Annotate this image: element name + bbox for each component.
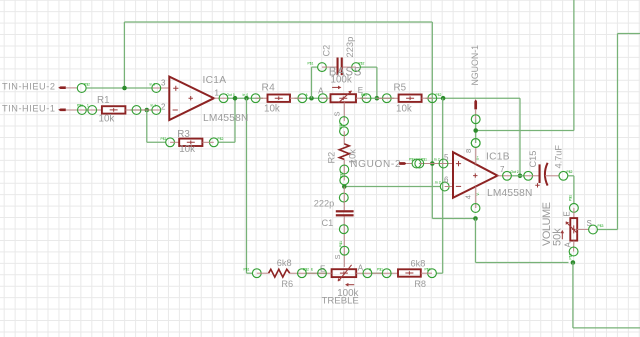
pin circles R1 left	[77, 104, 97, 115]
svg-text:V-: V-	[476, 192, 480, 195]
pin circles TREBLE A / R8 left	[356, 268, 398, 278]
svg-text:222p: 222p	[314, 199, 334, 209]
svg-text:10k: 10k	[396, 103, 412, 114]
svg-text:IC1B: IC1B	[486, 152, 510, 163]
wire NGUON-2 to IC1B pin5	[419, 163, 422, 165]
pin number 6	[444, 176, 449, 185]
pin circles IC1B pin5	[415, 158, 453, 168]
pin circle VOLUME bottom	[569, 241, 578, 260]
label TIN-HIEU-2	[2, 82, 55, 92]
wire treble row segments	[306, 272, 382, 274]
svg-text:223p: 223p	[344, 37, 355, 58]
svg-text:S: S	[333, 111, 342, 116]
label R2	[327, 152, 337, 164]
pin circle R3 left	[161, 137, 180, 147]
svg-text:V+: V+	[476, 156, 480, 160]
value R4 10k	[264, 103, 280, 114]
svg-text:10k: 10k	[99, 114, 115, 125]
svg-text:2: 2	[161, 102, 166, 111]
svg-text:100k: 100k	[331, 74, 352, 85]
svg-text:5: 5	[444, 153, 449, 162]
net flag NGUON-1	[474, 99, 477, 119]
svg-text:P$2: P$2	[340, 172, 344, 178]
svg-text:P$2: P$2	[436, 93, 442, 97]
potentiometer VOLUME	[561, 218, 589, 241]
wire C2 right leg	[360, 67, 377, 98]
pin circles R1 right / IC1A pin2	[125, 104, 160, 115]
pin circle R4 left	[251, 94, 267, 103]
svg-text:P$2: P$2	[303, 268, 309, 272]
wire R1 to IC1A pin2	[130, 109, 152, 111]
svg-text:6k8: 6k8	[411, 259, 426, 269]
svg-text:NGUON-2: NGUON-2	[350, 159, 401, 170]
resistor R4	[268, 95, 291, 102]
svg-text:P$1: P$1	[339, 241, 343, 247]
pin number 4	[464, 195, 473, 199]
label BASS	[329, 66, 362, 78]
wire pin4 row	[432, 218, 475, 220]
value R1 10k	[99, 114, 115, 125]
label R5	[394, 83, 407, 94]
pin IC1B power 8	[471, 139, 480, 165]
wire R3 right to output	[218, 98, 235, 142]
svg-text:1: 1	[87, 104, 89, 108]
svg-text:C2: C2	[322, 45, 332, 57]
value C1 222p	[314, 199, 334, 209]
capacitor C15	[535, 163, 559, 188]
label IC1B	[486, 152, 510, 163]
wire feedback down to R3	[147, 110, 166, 142]
pin circles NGUON-1	[471, 115, 480, 148]
wire BASS S to R2	[343, 131, 345, 144]
pin circle VOLUME top	[569, 195, 579, 218]
pin circle C15 left	[524, 171, 539, 180]
svg-text:10k: 10k	[179, 144, 195, 155]
label R4	[262, 83, 276, 94]
svg-text:In 2: In 2	[434, 158, 440, 162]
svg-text:R6: R6	[281, 279, 293, 289]
value R5 10k	[396, 103, 412, 114]
pin number 2	[161, 102, 166, 111]
wire BASS to R5	[360, 97, 394, 99]
pin circles C1 bottom	[339, 216, 349, 267]
pin circles R6 right / TREBLE E	[290, 268, 332, 278]
svg-text:In 0: In 0	[243, 93, 249, 97]
net flag TIN-HIEU-2	[58, 86, 77, 89]
pin circle R5 left	[377, 94, 399, 103]
svg-text:P$1: P$1	[361, 93, 367, 97]
label LM4558N IC1A	[203, 113, 249, 124]
node IC1A output junction A	[233, 96, 238, 101]
pin number 7	[500, 165, 505, 174]
svg-text:A: A	[306, 93, 309, 97]
pin number 8	[464, 149, 473, 153]
pin circle C15 right	[559, 170, 573, 180]
wiper pin BASS S	[333, 102, 345, 121]
wire C15 to VOLUME top	[568, 176, 574, 204]
value C15 4.7uF	[554, 145, 564, 169]
svg-text:P$2: P$2	[567, 170, 573, 174]
svg-text:Out 0: Out 0	[227, 93, 235, 97]
svg-text:TREBLE: TREBLE	[322, 296, 359, 307]
resistor R3	[179, 139, 202, 146]
svg-text:P$2: P$2	[359, 61, 365, 65]
capacitor C1	[336, 210, 354, 216]
pin number 1	[215, 89, 220, 98]
svg-text:P$3: P$3	[598, 224, 604, 228]
svg-text:TIN-HIEU-1: TIN-HIEU-1	[2, 104, 55, 114]
value C2 223p	[344, 37, 355, 58]
svg-text:10k: 10k	[264, 103, 280, 114]
pin circle R4 right	[290, 93, 309, 103]
svg-text:LM4558N: LM4558N	[487, 188, 533, 199]
wiper pin TREBLE S	[333, 254, 342, 259]
wire R8 feedback column	[436, 98, 442, 273]
resistor R2	[339, 144, 349, 160]
label LM4558N IC1B	[487, 188, 533, 199]
svg-text:A: A	[318, 86, 324, 95]
node BASS/C2-right junction	[375, 96, 380, 101]
node IC1A output junction B	[244, 96, 249, 101]
svg-text:4.7uF: 4.7uF	[554, 145, 564, 169]
svg-text:Out 2: Out 2	[511, 170, 519, 174]
svg-text:P$1: P$1	[421, 158, 427, 162]
svg-text:LM4558N: LM4558N	[203, 113, 249, 124]
label 6k8 R8	[411, 259, 426, 269]
pin number 3	[161, 78, 166, 87]
value TREBLE 100k	[337, 288, 358, 299]
label VOLUME	[541, 202, 553, 246]
svg-text:TIN-HIEU-2: TIN-HIEU-2	[2, 82, 55, 92]
wire VOLUME wiper to right edge	[597, 34, 640, 230]
wire NGUON-1 supply net	[476, 0, 574, 131]
value R2 10k	[348, 149, 358, 164]
svg-text:C15: C15	[528, 151, 538, 168]
wire pin4 to volume bottom	[476, 219, 569, 263]
resistor R5	[399, 95, 422, 102]
svg-text:S: S	[333, 254, 342, 259]
svg-text:A: A	[358, 263, 364, 272]
pin circle R6 wire end	[244, 268, 269, 278]
net flag TIN-HIEU-1	[58, 108, 102, 111]
node IC1B output junction	[518, 174, 523, 179]
label NGUON-1	[470, 45, 480, 86]
label TREBLE terminal A	[358, 263, 364, 272]
pin circle IC1B pin6	[435, 181, 453, 191]
svg-text:IC1A: IC1A	[203, 75, 227, 86]
svg-text:P$1: P$1	[161, 137, 167, 141]
wire R2 to IC1B pin6	[344, 186, 440, 188]
pin circle R8 right	[421, 268, 437, 278]
pin circle C2 left	[308, 61, 337, 71]
label C2	[322, 45, 332, 57]
wire IC1A output	[228, 97, 263, 99]
svg-text:50k: 50k	[552, 228, 564, 246]
node feedback/IC1B pin5 junction	[430, 161, 435, 166]
pin circle R5 right	[422, 93, 442, 103]
node R1/R3 junction	[145, 108, 150, 113]
resistor R6	[269, 269, 290, 277]
svg-text:R8: R8	[414, 279, 426, 289]
pin circles R2 bottom	[340, 159, 349, 184]
node TIN-HIEU-2 junction	[122, 86, 127, 91]
label VOLUME terminal A	[564, 242, 573, 248]
pin circle C2 right	[343, 61, 365, 71]
potentiometer TREBLE	[332, 265, 357, 287]
svg-text:In 2: In 2	[435, 181, 441, 185]
wire IC1B output to C15	[511, 175, 524, 177]
label TREBLE	[322, 296, 359, 307]
svg-text:R1: R1	[97, 95, 110, 106]
capacitor C2	[337, 58, 343, 76]
svg-text:P$1: P$1	[77, 104, 83, 108]
wire C2 left leg	[312, 67, 318, 98]
resistor R8	[398, 269, 421, 276]
pin circle R3 right	[202, 137, 223, 147]
pin circle TIN-HIEU-2 wire end	[77, 83, 90, 93]
svg-text:P$3: P$3	[339, 123, 343, 129]
pin circle BASS A	[318, 94, 330, 103]
pin circle BASS E	[356, 93, 371, 103]
pin circle C1 top	[339, 187, 348, 211]
svg-text:P$1: P$1	[244, 268, 250, 272]
svg-text:A: A	[564, 242, 573, 248]
label VOLUME terminal E	[563, 211, 572, 216]
svg-text:P$1: P$1	[377, 268, 383, 272]
svg-text:8: 8	[464, 149, 473, 153]
net flag NGUON-2	[399, 162, 412, 165]
pin circle IC1A pin3	[150, 82, 170, 92]
pin IC1B power 4	[471, 186, 480, 212]
node volume bottom junction	[571, 260, 576, 265]
label 6k8 R6	[277, 258, 292, 268]
svg-text:P$2: P$2	[425, 268, 431, 272]
wire R4 to BASS	[294, 97, 327, 99]
svg-text:P$2: P$2	[218, 137, 224, 141]
label IC1A	[203, 75, 227, 86]
label R6	[281, 279, 293, 289]
pin number 5	[444, 153, 449, 162]
svg-text:In 1: In 1	[151, 104, 157, 108]
svg-text:6: 6	[444, 176, 449, 185]
node R5/R8 junction	[441, 96, 446, 101]
label TIN-HIEU-1	[2, 104, 55, 114]
resistor R1	[102, 106, 126, 113]
svg-text:E: E	[563, 211, 572, 216]
wire R5 to feedback column	[426, 97, 521, 99]
op-amp IC1A	[169, 77, 214, 120]
wire ground to right edge	[573, 263, 640, 328]
pin circle VOLUME S	[589, 224, 604, 234]
node IC1B pin4 junction	[473, 216, 478, 221]
svg-text:4: 4	[464, 195, 473, 199]
node R2 bottom junction	[342, 184, 347, 189]
wire output down to treble row	[247, 98, 253, 273]
svg-text:3: 3	[161, 78, 166, 87]
label BASS terminal A	[318, 86, 324, 95]
label R8	[414, 279, 426, 289]
label R1	[97, 95, 110, 106]
svg-text:6k8: 6k8	[277, 258, 292, 268]
pin circle NGUON-2 wire end	[409, 158, 421, 168]
svg-text:R4: R4	[262, 83, 276, 94]
wire TIN-HIEU-2 to IC1A pin3	[86, 87, 152, 89]
op-amp IC1B	[453, 152, 498, 198]
svg-text:P$1: P$1	[308, 61, 314, 65]
wire top feedback net	[124, 22, 432, 219]
label C15	[528, 151, 538, 168]
svg-text:R5: R5	[394, 83, 407, 94]
svg-text:R2: R2	[327, 152, 337, 164]
value VOLUME 50k	[552, 228, 564, 246]
label NGUON-2	[350, 159, 401, 170]
node R4/C2-left junction	[309, 96, 314, 101]
label C1	[322, 218, 334, 228]
label TREBLE terminal E	[320, 265, 325, 274]
svg-text:E: E	[311, 268, 313, 272]
potentiometer BASS	[331, 86, 357, 103]
label R3	[177, 129, 190, 140]
svg-text:P$1: P$1	[569, 195, 573, 201]
pin circles BASS S wire	[339, 117, 348, 136]
svg-text:P$2: P$2	[84, 83, 90, 87]
label VOLUME terminal S	[587, 219, 592, 228]
pin circle IC1B output	[498, 170, 519, 180]
pin circle IC1A output	[214, 93, 248, 103]
svg-text:P$2: P$2	[569, 253, 573, 259]
label BASS terminal E	[358, 86, 363, 95]
svg-text:1: 1	[215, 89, 220, 98]
svg-text:NGUON-1: NGUON-1	[470, 45, 480, 86]
wire down to IC1B output	[519, 98, 521, 176]
svg-text:C1: C1	[322, 218, 334, 228]
value BASS 100k	[331, 74, 352, 85]
value R3 10k	[179, 144, 195, 155]
svg-text:In 0: In 0	[150, 82, 156, 86]
svg-text:R3: R3	[177, 129, 190, 140]
svg-text:P$1: P$1	[409, 158, 415, 162]
